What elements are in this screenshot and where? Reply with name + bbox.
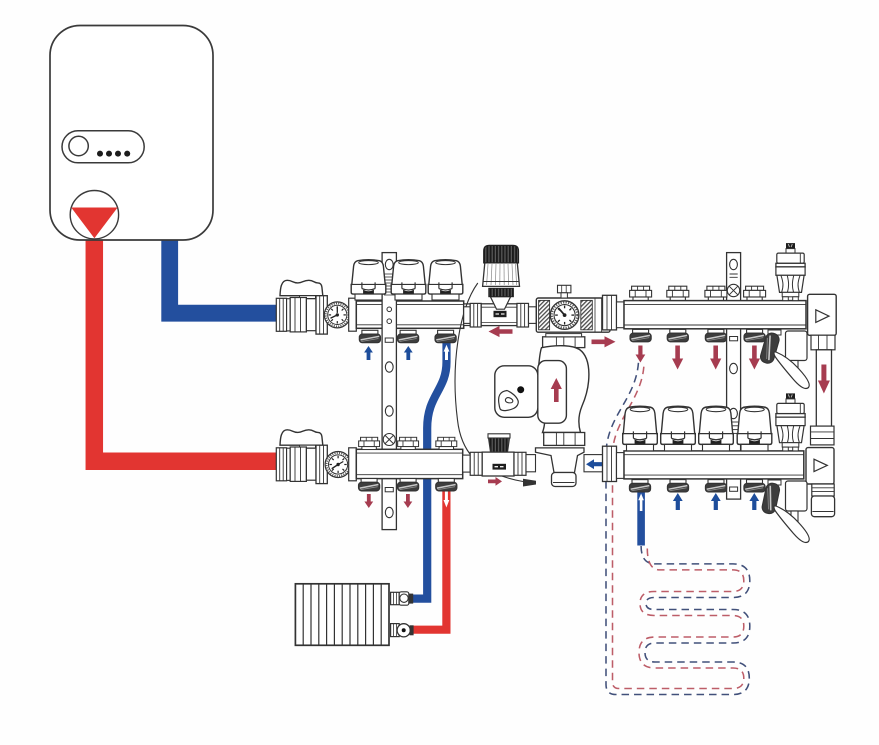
red down arrow under ur outlet 3 — [710, 346, 721, 370]
pipe stub right of funnel — [584, 455, 604, 472]
blue up arrow under lr outlet 3 — [711, 493, 721, 510]
lower-left top union 3 — [436, 437, 457, 449]
lower-right manifold left union — [603, 446, 625, 481]
lower-left outlet 3 — [436, 479, 457, 491]
pump top union nut — [543, 334, 585, 348]
lower-right outlet 2 — [667, 480, 688, 492]
actuator B4 — [737, 406, 772, 451]
red up arrow inside pump — [551, 378, 562, 402]
lower-left outlet 1 — [359, 479, 380, 491]
actuator B1 — [623, 406, 658, 451]
left mounting bracket — [382, 253, 396, 530]
radiator bottom valve — [391, 624, 414, 637]
upper-right end cap — [808, 294, 837, 335]
upper-left ball valve — [276, 280, 331, 334]
blue up arrow under lr outlet 4 — [749, 493, 759, 510]
lower-left pressure gauge — [325, 452, 351, 478]
radiator — [295, 584, 389, 646]
red down arrow under ur outlet 4 — [749, 346, 760, 370]
lower-right outlet 4 — [744, 480, 765, 492]
radiator top valve — [391, 592, 414, 605]
capillary probe — [523, 479, 536, 487]
union on right pipe — [811, 426, 835, 445]
actuator B2 — [661, 406, 696, 451]
upper-right outlet 1 — [630, 329, 651, 341]
pump central panel — [538, 361, 567, 424]
upper-right manifold left union — [603, 295, 625, 330]
lower-left ball valve — [276, 430, 331, 484]
lower drain valve — [761, 480, 809, 543]
check valve funnel under pump — [536, 448, 585, 487]
actuator A1 — [351, 260, 386, 300]
upper-left manifold bar — [356, 301, 470, 328]
upper-left outlet 3 — [435, 330, 456, 342]
red down arrow in right pipe — [818, 365, 830, 394]
actuator A3 — [428, 260, 463, 300]
white flow arrow in blue loop pipe — [638, 494, 644, 512]
upper-left outlet 1 — [359, 330, 380, 342]
red arrow right on lower line — [488, 477, 502, 486]
upper-right outlet 3 — [705, 329, 726, 341]
lower-right outlet 1 — [629, 480, 650, 492]
upper air vent — [776, 243, 805, 301]
thermometer gauge — [550, 301, 579, 330]
lower-right outlet 3 — [705, 480, 726, 492]
upper-left pressure gauge — [324, 302, 350, 328]
lower-left top union 1 — [359, 437, 380, 449]
actuator B3 — [699, 406, 734, 451]
lower-right end cap — [806, 448, 834, 484]
pipe: blue branch from upper manifold to radiator — [412, 341, 447, 599]
pump bottom union nut — [544, 433, 585, 446]
boiler — [50, 26, 213, 241]
upper-right top union 1 — [630, 286, 652, 300]
lower air vent — [776, 393, 805, 451]
white flow arrow in red branch pipe — [444, 489, 450, 508]
upper-right top union 4 — [744, 286, 766, 300]
red arrow right toward right manifold — [592, 336, 616, 347]
pump motor box — [495, 366, 538, 418]
red down arrow under lower-left outlet 2 — [404, 494, 413, 508]
pipe: blue return from upper-left ball valve to boiler — [170, 238, 279, 313]
upper-right manifold bar — [624, 301, 806, 329]
red arrow left under thermostatic valve — [489, 326, 513, 337]
upper-right top union 2 — [667, 286, 689, 300]
capillary tube — [455, 283, 523, 482]
right vertical pipe between manifolds — [816, 350, 831, 426]
dashed underfloor loop: red line — [613, 364, 744, 689]
pipe: red branch from lower manifold to radiator — [412, 484, 447, 630]
lower-left manifold hex — [349, 448, 357, 481]
union nut under upper-right end cap — [811, 335, 835, 350]
thermometer valve body — [536, 285, 610, 332]
blue up arrow under outlet 1 — [364, 346, 373, 360]
blue arrow left on lower line — [586, 459, 603, 469]
pipe: solid blue to underfloor loop from lower-right manifold — [637, 490, 645, 546]
thermostatic valve body — [481, 303, 536, 327]
actuator A2 — [391, 260, 426, 300]
pump volute — [537, 346, 589, 433]
blue up arrow under outlet 2 — [404, 346, 413, 360]
lower-right manifold bar — [624, 451, 804, 479]
end cup below lower-right manifold — [811, 496, 834, 517]
lower line: connector from lower-left manifold — [463, 455, 471, 472]
union nut — [470, 452, 482, 475]
upper drain valve — [759, 330, 809, 389]
thermostatic head (black cap) — [483, 245, 520, 309]
blue up arrow under lr outlet 2 — [673, 493, 683, 510]
pipe: red supply from boiler to lower-left ball valve — [94, 236, 278, 461]
upper-right top union 3 — [705, 286, 727, 300]
upper-right outlet 2 — [667, 329, 688, 341]
lower-left manifold bar — [356, 449, 462, 478]
upper-left manifold hex — [349, 298, 357, 331]
lower-left outlet 2 — [398, 479, 419, 491]
union nut left of thermostatic valve — [464, 303, 482, 327]
upper-right outlet 4 — [744, 329, 765, 341]
balancing valve with ribbed cap — [482, 434, 535, 476]
union nut under lower-right end cap — [812, 484, 834, 496]
lower-left top union 2 — [398, 437, 419, 449]
upper-left outlet 2 — [398, 330, 419, 342]
red down arrow under lower-left outlet 1 — [364, 494, 373, 508]
red down arrow under ur outlet 1 — [636, 346, 646, 363]
dashed underfloor loop: blue line — [606, 362, 750, 695]
red down arrow under ur outlet 2 — [672, 346, 683, 370]
white flow arrow in blue branch pipe — [444, 345, 450, 360]
right mounting bracket — [727, 253, 741, 500]
